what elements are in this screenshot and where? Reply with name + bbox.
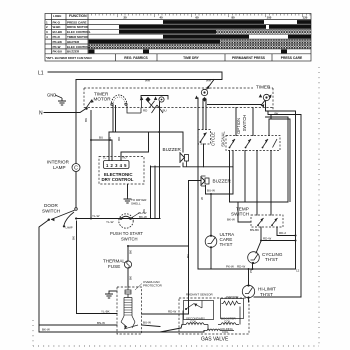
svg-text:TIMER: TIMER <box>256 85 271 90</box>
svg-text:BU: BU <box>108 137 112 141</box>
svg-text:BN-W: BN-W <box>97 321 105 325</box>
svg-text:1: 1 <box>46 20 48 24</box>
svg-text:1C: 1C <box>103 155 106 159</box>
svg-text:BK-W: BK-W <box>139 215 147 219</box>
svg-text:PK-W: PK-W <box>53 45 61 49</box>
svg-text:PRESS CARE: PRESS CARE <box>281 56 303 60</box>
svg-text:BU-W: BU-W <box>207 189 215 193</box>
svg-text:SWITCH: SWITCH <box>42 209 60 214</box>
svg-text:BK-W: BK-W <box>42 328 50 332</box>
svg-text:YL-W: YL-W <box>106 220 114 224</box>
svg-text:SWITCH: SWITCH <box>242 115 247 132</box>
svg-text:FUSE: FUSE <box>108 264 120 269</box>
svg-text:BUZZER: BUZZER <box>213 179 232 184</box>
svg-text:LAMP: LAMP <box>66 226 73 230</box>
svg-text:RADIANT SENSOR: RADIANT SENSOR <box>186 293 213 297</box>
svg-text:2: 2 <box>46 25 48 29</box>
svg-text:RD: RD <box>143 109 148 113</box>
svg-text:80: 80 <box>231 16 235 20</box>
svg-text:NO: NO <box>123 155 127 159</box>
svg-text:TH'ST: TH'ST <box>265 257 278 262</box>
svg-text:12: 12 <box>296 269 300 273</box>
svg-text:HI-LIMIT: HI-LIMIT <box>258 287 276 292</box>
svg-text:ELEC CONTROL: ELEC CONTROL <box>67 30 91 34</box>
svg-text:LOBE: LOBE <box>53 14 61 18</box>
svg-text:SHELL: SHELL <box>131 202 141 206</box>
svg-text:TH'ST: TH'ST <box>260 292 273 297</box>
svg-text:YL-W: YL-W <box>92 214 100 218</box>
svg-text:BU: BU <box>99 136 103 140</box>
svg-text:PK-BU: PK-BU <box>53 50 63 54</box>
svg-text:YL-BK: YL-BK <box>101 310 110 314</box>
svg-text:OPTION: OPTION <box>236 118 241 134</box>
svg-text:BUZZER: BUZZER <box>67 50 80 54</box>
svg-text:WR: WR <box>145 79 151 83</box>
svg-text:SWITCH: SWITCH <box>121 237 138 242</box>
svg-text:RD: RD <box>117 136 121 141</box>
svg-text:4: 4 <box>46 35 48 39</box>
svg-text:W: W <box>200 197 204 200</box>
svg-text:1 2 3 4 5: 1 2 3 4 5 <box>106 163 127 168</box>
svg-text:BK: BK <box>72 236 76 240</box>
svg-text:BK: BK <box>142 209 146 213</box>
svg-text:*INT'L BLOWER DRIFT CAM 5/SEC: *INT'L BLOWER DRIFT CAM 5/SEC <box>46 56 92 60</box>
svg-text:TH'ST: TH'ST <box>220 242 233 247</box>
svg-text:PERMANENT PRESS: PERMANENT PRESS <box>232 56 266 60</box>
svg-text:PK-R: PK-R <box>53 35 61 39</box>
svg-text:TIME DRY: TIME DRY <box>183 56 199 60</box>
svg-text:PK-O: PK-O <box>53 20 61 24</box>
svg-text:RD-W: RD-W <box>263 237 271 241</box>
svg-text:REG. FABRICS: REG. FABRICS <box>124 56 148 60</box>
svg-text:BK: BK <box>275 112 279 116</box>
svg-text:3: 3 <box>46 30 48 34</box>
svg-text:BK-W: BK-W <box>227 218 235 222</box>
svg-text:BU-BK: BU-BK <box>53 30 63 34</box>
svg-text:GND: GND <box>47 93 56 98</box>
svg-text:120: 120 <box>303 16 308 20</box>
svg-text:TIMER MOTOR: TIMER MOTOR <box>67 35 89 39</box>
svg-text:COIL: COIL <box>190 320 197 324</box>
svg-text:WR: WR <box>206 79 212 83</box>
svg-text:BUZZER: BUZZER <box>163 147 182 152</box>
svg-text:C: C <box>74 166 78 172</box>
svg-text:BU: BU <box>163 109 167 113</box>
svg-text:DRIVE MOTOR: DRIVE MOTOR <box>67 25 89 29</box>
svg-text:PK-BK: PK-BK <box>53 40 63 44</box>
svg-text:COIL: COIL <box>222 330 229 334</box>
svg-text:BK: BK <box>129 276 133 280</box>
svg-text:L1: L1 <box>38 71 44 77</box>
svg-text:MOTOR: MOTOR <box>94 97 112 102</box>
svg-text:20: 20 <box>123 16 127 20</box>
svg-text:BU-W: BU-W <box>143 321 151 325</box>
svg-text:LAMP: LAMP <box>53 165 66 170</box>
svg-text:BK: BK <box>129 250 133 254</box>
svg-text:IGNITOR: IGNITOR <box>226 295 239 299</box>
svg-text:SWITCH: SWITCH <box>231 211 249 216</box>
svg-text:W-BK: W-BK <box>53 25 62 29</box>
svg-text:BK: BK <box>84 118 88 122</box>
svg-text:RD-W: RD-W <box>237 265 245 269</box>
svg-text:ELEC CONTROL: ELEC CONTROL <box>67 45 91 49</box>
svg-text:CYCLE: CYCLE <box>211 132 216 146</box>
svg-text:THERMAL: THERMAL <box>103 259 125 264</box>
svg-text:RD-W: RD-W <box>168 310 176 314</box>
svg-text:BN-BK: BN-BK <box>250 228 259 232</box>
svg-text:DOOR: DOOR <box>44 203 58 208</box>
svg-text:PROTECTOR: PROTECTOR <box>143 284 163 288</box>
svg-text:RD-2: RD-2 <box>279 231 286 235</box>
svg-text:FUNCTION: FUNCTION <box>69 14 87 18</box>
svg-text:60: 60 <box>195 16 199 20</box>
svg-text:DRY CONTROL: DRY CONTROL <box>102 177 134 182</box>
svg-text:COIL: COIL <box>224 320 231 324</box>
svg-text:PK: PK <box>249 269 253 273</box>
svg-text:100: 100 <box>267 16 272 20</box>
svg-text:SIGNAL: SIGNAL <box>221 131 226 147</box>
svg-text:PRESS CARE: PRESS CARE <box>67 20 87 24</box>
svg-text:40: 40 <box>159 16 163 20</box>
svg-text:INTERIOR: INTERIOR <box>47 160 70 165</box>
svg-text:PUSH TO START: PUSH TO START <box>110 231 143 236</box>
svg-text:PK-W: PK-W <box>226 265 234 269</box>
svg-text:HEATER: HEATER <box>67 40 80 44</box>
svg-text:BU: BU <box>186 254 190 258</box>
svg-text:GAS VALVE: GAS VALVE <box>201 337 229 343</box>
svg-text:N: N <box>39 111 43 117</box>
